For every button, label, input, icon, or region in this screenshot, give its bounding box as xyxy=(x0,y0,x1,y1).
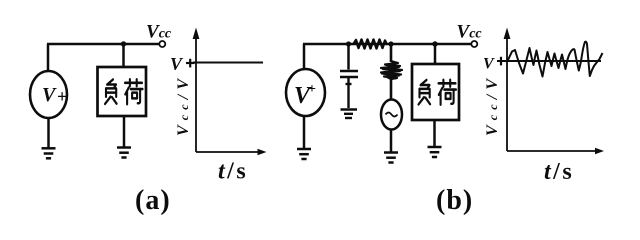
wire noise source to ground (b) xyxy=(390,130,393,153)
node junction noise branch (b) xyxy=(388,41,393,46)
noise source AC (b) xyxy=(381,100,402,130)
svg-text:+: + xyxy=(308,82,316,97)
wire choke to noise source (b) xyxy=(390,79,393,100)
ground below source (b) xyxy=(297,149,311,159)
svg-text:(a): (a) xyxy=(135,185,171,216)
wire source to top rail (a) xyxy=(47,44,50,70)
graph a vertical axis Vcc/V xyxy=(193,28,200,153)
svg-text:V: V xyxy=(42,84,57,106)
wire capacitor to ground (b) xyxy=(346,78,352,108)
svg-text:t/s: t/s xyxy=(218,159,248,185)
ground below source (a) xyxy=(42,148,56,158)
graph b vertical axis Vcc/V xyxy=(504,28,511,152)
node junction load branch (b) xyxy=(432,41,437,46)
svg-text:Vcc: Vcc xyxy=(146,22,172,43)
load box 负荷 (a) xyxy=(98,67,147,116)
terminal Vcc (b) xyxy=(471,41,477,47)
ground below capacitor (b) xyxy=(341,110,358,119)
wire top rail (b) xyxy=(303,43,471,46)
wire rail to load (a) xyxy=(122,44,125,67)
wire rail to capacitor (b) xyxy=(347,44,350,70)
ground below load (b) xyxy=(428,147,442,157)
ferrite choke scribble (b) xyxy=(381,61,402,79)
wire source to ground (b) xyxy=(303,116,306,149)
wire source to top rail (b) xyxy=(303,44,306,69)
wire rail to load (b) xyxy=(434,44,437,64)
capacitor C1 (b) xyxy=(340,71,358,77)
node junction rail-load (a) xyxy=(121,41,126,46)
ground below load (a) xyxy=(117,148,131,158)
graph b level line V xyxy=(497,60,601,62)
terminal Vcc (a) xyxy=(159,41,165,47)
wire rail to choke (b) xyxy=(390,44,393,62)
graph a horizontal axis t/s xyxy=(196,149,267,155)
wire top rail (a) xyxy=(47,43,159,46)
svg-text:t/s: t/s xyxy=(544,159,574,185)
voltage source V+ (a) xyxy=(30,71,67,118)
svg-text:V: V xyxy=(483,56,495,73)
svg-text:Vcc: Vcc xyxy=(457,22,483,43)
wire load to ground (a) xyxy=(123,116,126,148)
svg-text:Vcc/V: Vcc/V xyxy=(175,78,192,136)
wire load to ground (b) xyxy=(433,120,436,147)
svg-text:Vcc/V: Vcc/V xyxy=(484,78,501,136)
graph a level line V xyxy=(193,62,263,64)
svg-text:V: V xyxy=(170,54,184,74)
svg-text:(b): (b) xyxy=(436,185,473,216)
graph b noisy waveform xyxy=(508,42,603,77)
graph b tick plus xyxy=(500,57,502,66)
graph b horizontal axis t/s xyxy=(507,148,604,154)
ground below noise source (b) xyxy=(384,153,398,163)
graph a tick plus xyxy=(186,59,195,68)
svg-text:+: + xyxy=(57,87,67,107)
inductor L1 on rail (b) xyxy=(354,40,387,49)
node junction capacitor branch (b) xyxy=(346,41,351,46)
voltage source V+ (b) xyxy=(286,69,325,116)
load box 负荷 (b) xyxy=(412,64,459,120)
wire source to ground (a) xyxy=(47,118,50,148)
